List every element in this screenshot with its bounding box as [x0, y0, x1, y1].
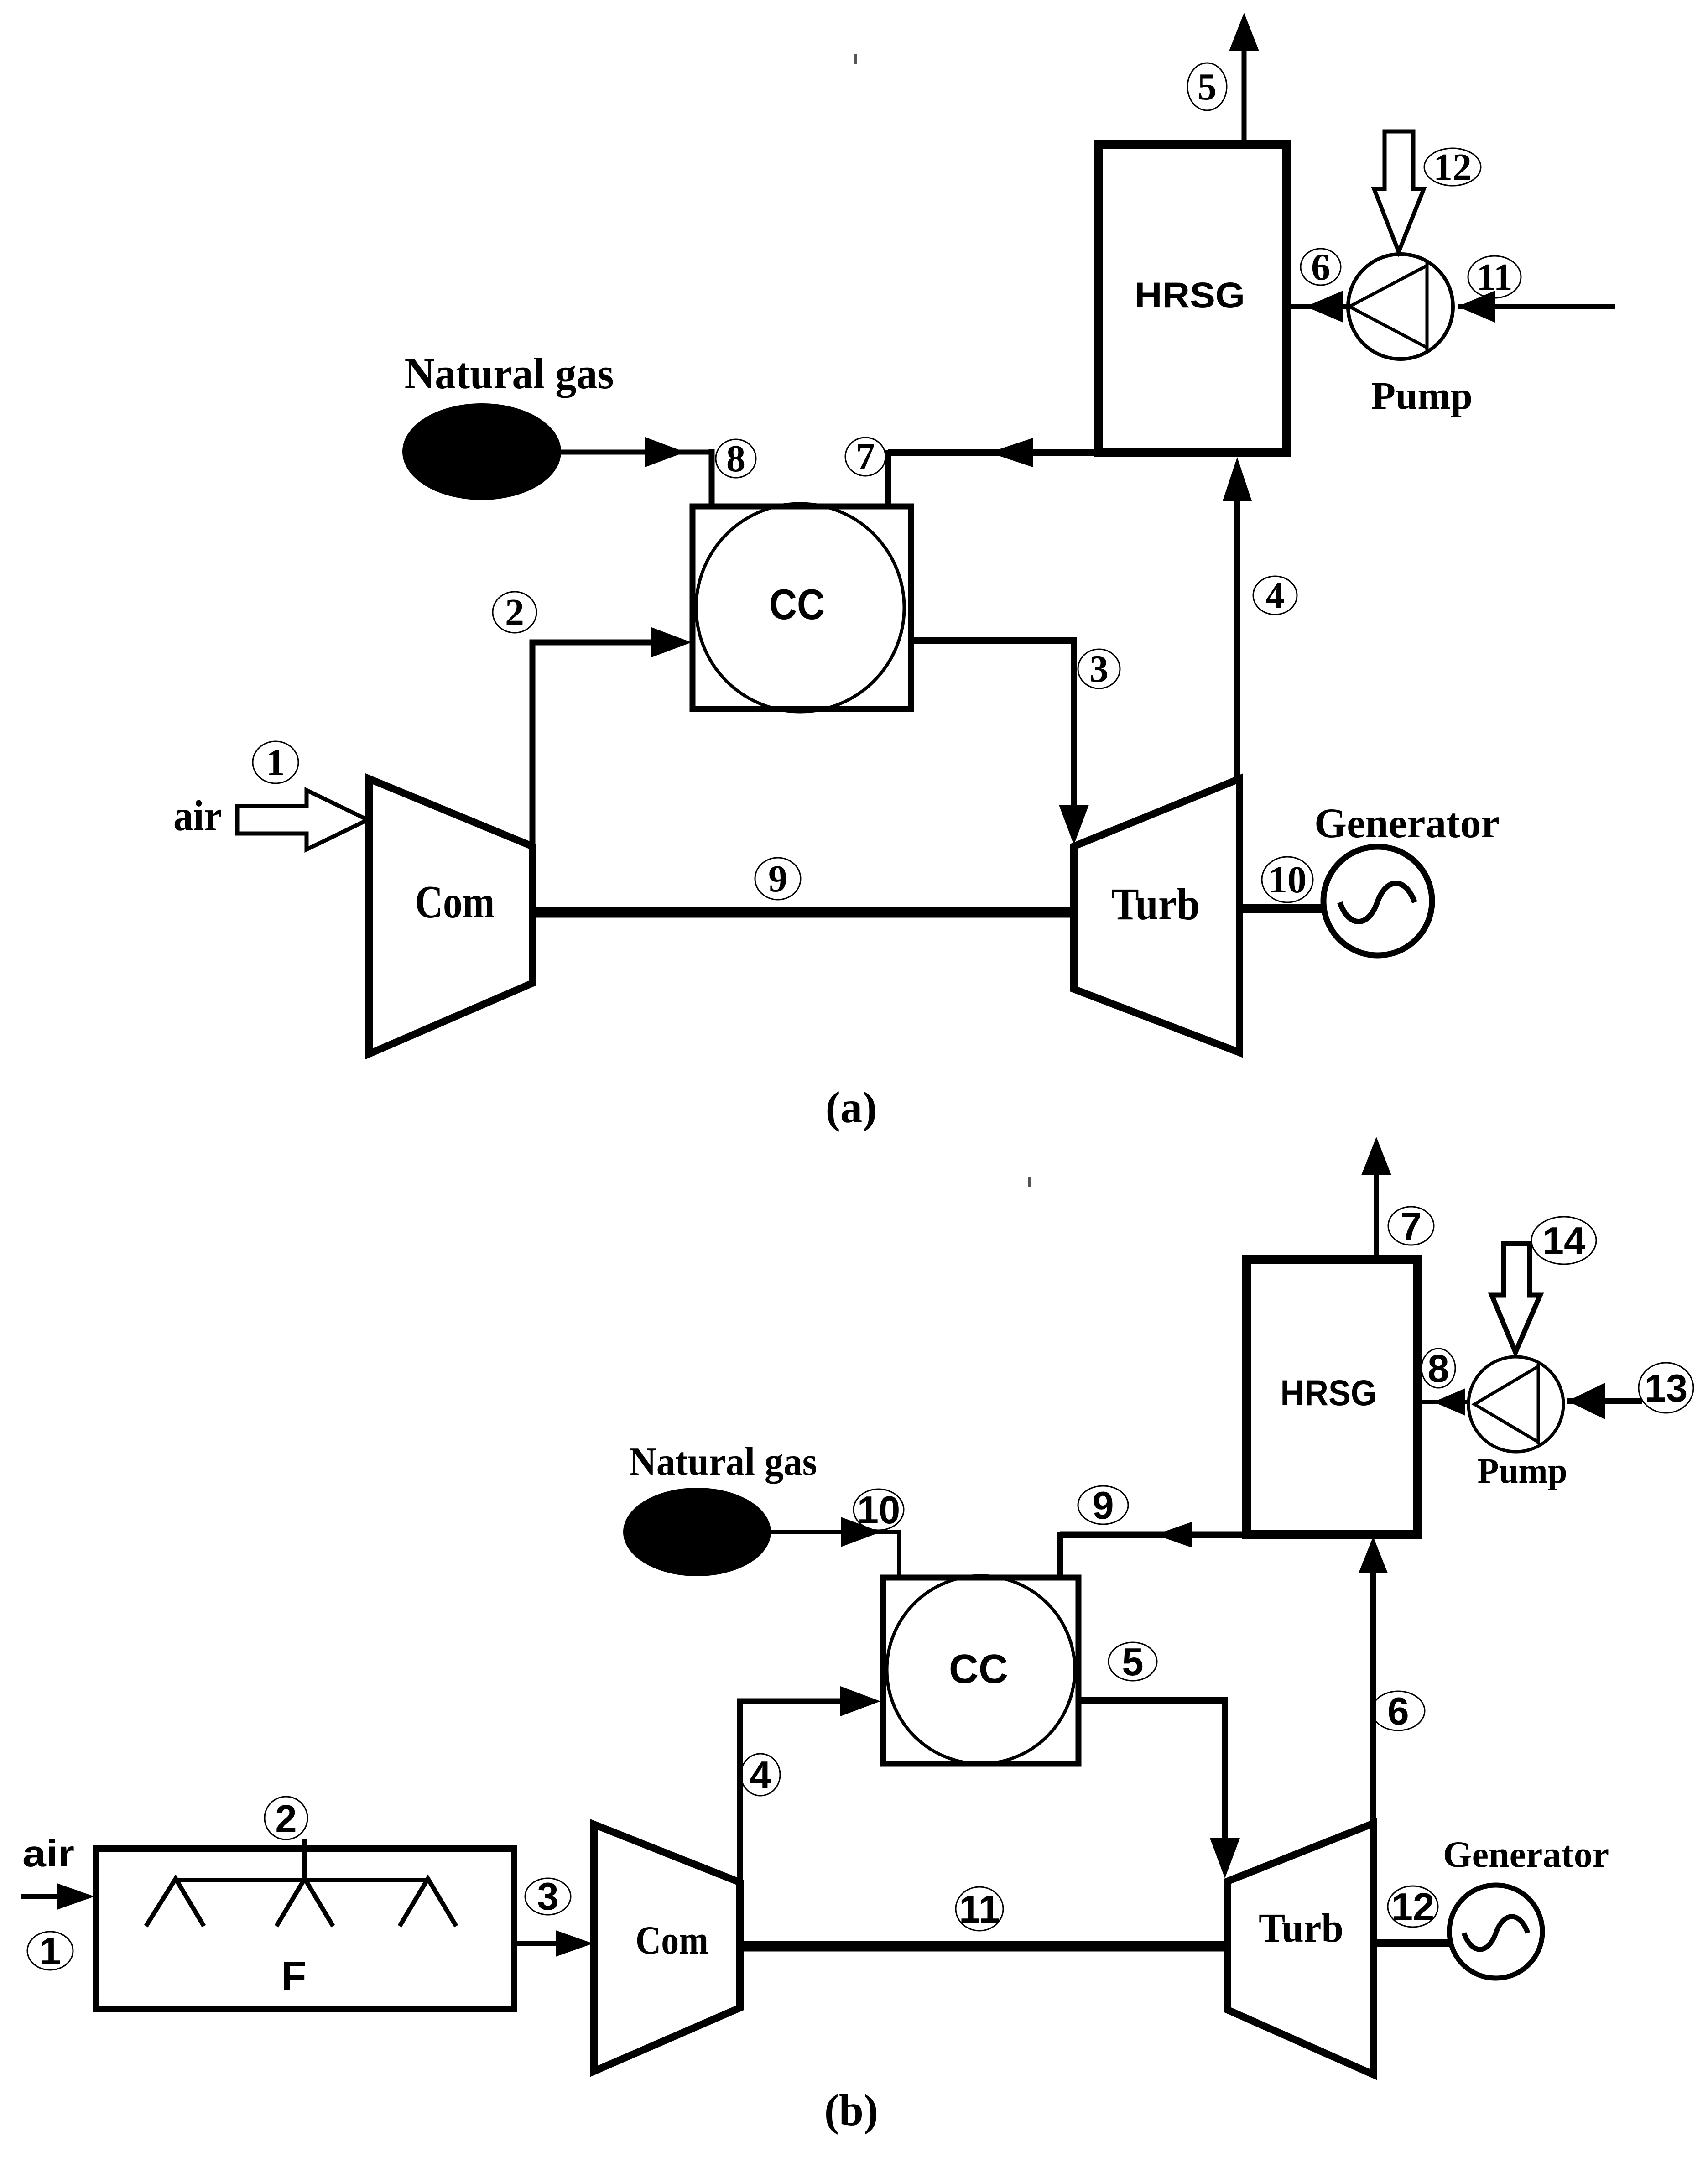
make-up water outline arrow (stream 14) [1492, 1244, 1540, 1352]
svg-text:4: 4 [1265, 574, 1285, 617]
svg-text:air: air [173, 792, 222, 840]
svg-text:CC: CC [769, 580, 825, 628]
svg-text:CC: CC [949, 1646, 1008, 1692]
DIAGRAM_B [21, 1137, 1693, 2135]
wire 10: turbine to generator [1239, 904, 1324, 913]
svg-text:Turb: Turb [1259, 1906, 1343, 1951]
wire 9b: HRSG to CC [1060, 1532, 1251, 1538]
wire 2b: water feed into manifold [302, 1839, 307, 1880]
svg-text:2: 2 [275, 1797, 297, 1841]
node 14 label [1531, 1217, 1596, 1264]
wire 12b: turbine to generator [1373, 1939, 1450, 1947]
compressor Com (b) [594, 1824, 740, 2071]
node 3b label [525, 1878, 571, 1915]
svg-text:11: 11 [959, 1888, 1000, 1931]
svg-text:(b): (b) [824, 2086, 879, 2135]
node 8 label [716, 439, 756, 478]
wire 4: turbine to HRSG [1234, 498, 1240, 779]
wire 3: CC to turbine [911, 641, 1074, 817]
node 11 label [1468, 256, 1521, 298]
node 12b label [1388, 1886, 1438, 1927]
wire 6: pump to HRSG [1289, 304, 1349, 309]
svg-text:7: 7 [1400, 1205, 1422, 1248]
DIAGRAM_A [173, 13, 1615, 1132]
node 13 label [1639, 1363, 1693, 1413]
node 10b label [854, 1489, 904, 1530]
svg-text:8: 8 [726, 438, 745, 480]
wire 3b: filter to compressor [514, 1941, 563, 1946]
node 7b label [1388, 1207, 1434, 1245]
wire 13: water inlet to pump [1567, 1398, 1642, 1404]
svg-text:3: 3 [537, 1875, 558, 1918]
svg-text:HRSG: HRSG [1281, 1372, 1377, 1413]
svg-text:6: 6 [1387, 1690, 1409, 1733]
svg-text:Natural gas: Natural gas [629, 1440, 817, 1484]
air inlet arrow (stream 1b) [21, 1894, 64, 1899]
wire 5: HRSG exhaust [1242, 46, 1247, 143]
make-up water outline arrow (stream 12) [1374, 131, 1424, 252]
node 7 label [845, 438, 885, 476]
pump (b) [1468, 1357, 1563, 1452]
natural gas source (a) [402, 403, 561, 500]
svg-text:8: 8 [1427, 1347, 1449, 1391]
compressor Com (a) [369, 779, 532, 1054]
HRSG (b) [1247, 1259, 1418, 1535]
node 5b label [1109, 1642, 1157, 1681]
node 1b label [27, 1932, 73, 1970]
turbine Turb (a) [1074, 779, 1239, 1052]
node 12 label [1424, 148, 1481, 186]
wire 7b: HRSG exhaust [1374, 1170, 1379, 1259]
node 6 label [1301, 249, 1341, 285]
svg-text:4: 4 [750, 1754, 771, 1797]
natural gas source (b) [623, 1488, 771, 1576]
svg-text:12: 12 [1391, 1886, 1435, 1929]
wire 5b: CC to turbine [1078, 1700, 1225, 1843]
node 2b label [265, 1797, 307, 1839]
svg-text:14: 14 [1542, 1219, 1586, 1263]
shaft 11b [740, 1941, 1227, 1952]
svg-text:Turb: Turb [1111, 879, 1200, 929]
turbine Turb (b) [1227, 1824, 1373, 2074]
node 6b label [1372, 1691, 1425, 1730]
svg-text:Generator: Generator [1443, 1834, 1609, 1875]
wire 4b: Com outlet to CC [740, 1701, 844, 1882]
svg-text:1: 1 [39, 1930, 61, 1973]
svg-text:10: 10 [857, 1489, 901, 1532]
svg-text:Com: Com [635, 1918, 708, 1963]
svg-text:F: F [281, 1954, 307, 1999]
node 4b label [741, 1754, 780, 1796]
svg-text:13: 13 [1645, 1367, 1688, 1410]
svg-text:10: 10 [1268, 859, 1307, 901]
svg-text:11: 11 [1476, 256, 1512, 298]
stray mark [1028, 1177, 1031, 1187]
HRSG (a) [1099, 144, 1286, 452]
node 3 label [1078, 649, 1120, 688]
svg-text:9: 9 [1092, 1484, 1114, 1527]
stray mark [854, 54, 857, 64]
wire 10b: natural gas to CC [771, 1530, 899, 1534]
node 9b label [1078, 1486, 1128, 1524]
svg-text:2: 2 [505, 591, 524, 634]
svg-text:7: 7 [856, 436, 875, 478]
node 8b label [1422, 1349, 1455, 1388]
svg-text:Natural gas: Natural gas [405, 349, 614, 398]
node 4 label [1253, 576, 1297, 615]
shaft 9 [532, 907, 1074, 918]
svg-text:HRSG: HRSG [1135, 275, 1245, 315]
svg-text:Pump: Pump [1371, 374, 1473, 417]
svg-text:(a): (a) [825, 1083, 877, 1132]
svg-text:air: air [22, 1833, 74, 1875]
pump (a) [1348, 254, 1453, 359]
generator (a) [1323, 847, 1432, 955]
nozzle 1 [146, 1879, 204, 1926]
node 10 label [1262, 857, 1313, 902]
wire 8b: pump to HRSG [1418, 1400, 1469, 1404]
nozzle 3 [400, 1879, 456, 1926]
node 1 label [253, 741, 298, 783]
spray manifold [176, 1878, 426, 1882]
combustion chamber CC (a) [693, 506, 911, 709]
nozzle 2 [276, 1879, 333, 1926]
svg-text:12: 12 [1433, 146, 1472, 188]
fogging filter F [96, 1849, 514, 2009]
wire 11: water inlet to pump [1458, 304, 1615, 309]
wire 7: HRSG to CC [888, 449, 1103, 456]
node 11b label [956, 1887, 1003, 1931]
svg-text:Pump: Pump [1478, 1451, 1567, 1490]
node 9 label [755, 858, 801, 900]
wire 8: natural gas to CC [561, 450, 712, 455]
svg-text:Generator: Generator [1314, 800, 1500, 846]
svg-text:5: 5 [1198, 66, 1217, 108]
wire 2: Com outlet to CC [532, 642, 657, 849]
air inlet outline arrow (stream 1) [237, 790, 368, 849]
node 5 label [1187, 63, 1227, 110]
combustion chamber CC (b) [883, 1578, 1078, 1764]
svg-text:Com: Com [415, 876, 495, 928]
svg-text:6: 6 [1311, 246, 1330, 288]
wire 6b: turbine to HRSG [1370, 1569, 1376, 1824]
generator (b) [1449, 1885, 1542, 1978]
node 2 label [493, 592, 536, 633]
svg-text:9: 9 [768, 858, 787, 900]
svg-text:5: 5 [1122, 1641, 1143, 1684]
svg-text:3: 3 [1089, 648, 1109, 690]
svg-text:1: 1 [266, 741, 285, 784]
